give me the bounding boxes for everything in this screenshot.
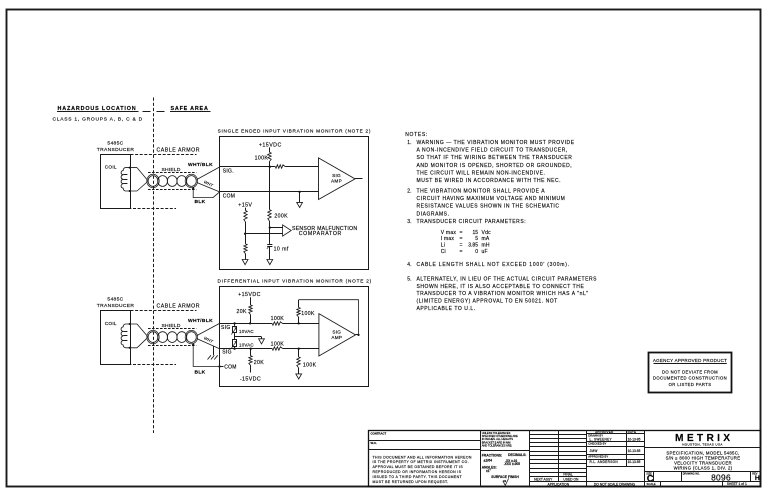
svg-text:AND MONITOR IS OPENED, SHORTED: AND MONITOR IS OPENED, SHORTED OR GROUND… <box>417 163 573 169</box>
wire ground stub <box>299 192 301 203</box>
svg-text:DRAWING NO.: DRAWING NO. <box>683 473 700 476</box>
wire between suppressors <box>234 333 236 340</box>
svg-text:FRACTIONS:: FRACTIONS: <box>482 454 502 458</box>
svg-text:100K: 100K <box>255 155 269 161</box>
single ended monitor box <box>220 137 369 270</box>
junction at shield end <box>192 343 194 345</box>
ground symbol at COM <box>297 202 303 207</box>
node comparator ref <box>244 233 246 235</box>
node feedback tap on SIG1 <box>298 322 300 324</box>
svg-text:NEXT ASSY: NEXT ASSY <box>534 478 553 482</box>
svg-text:mA: mA <box>482 236 490 242</box>
svg-text:BLK: BLK <box>195 199 206 205</box>
svg-text:200K: 200K <box>274 214 288 220</box>
svg-text:10VAC: 10VAC <box>239 329 254 334</box>
svg-text:MUST BE WIRED IN ACCORDANCE WI: MUST BE WIRED IN ACCORDANCE WITH THE NEC… <box>417 178 562 184</box>
wire COM input <box>220 191 319 193</box>
svg-text:DO NOT DEVIATE FROM: DO NOT DEVIATE FROM <box>662 369 718 374</box>
svg-text:0: 0 <box>475 249 478 255</box>
wire BLK to COM terminal <box>193 188 219 197</box>
resistor 20K pullup <box>249 305 252 315</box>
svg-text:A NON-INCENDIVE FIELD CIRCUIT: A NON-INCENDIVE FIELD CIRCUIT TO TRANSDU… <box>417 147 568 153</box>
wire SIG2 to op-amp <box>283 348 319 350</box>
svg-text:SIG: SIG <box>222 350 232 356</box>
svg-text:I max: I max <box>441 236 455 242</box>
svg-text:+15VDC: +15VDC <box>259 142 282 148</box>
wire SIG2 input line <box>220 348 273 350</box>
differential monitor box <box>220 287 369 387</box>
svg-text:3.: 3. <box>407 219 411 225</box>
coil L1 winding <box>121 324 137 348</box>
svg-text:R.L. ANDERSON: R.L. ANDERSON <box>590 460 619 464</box>
resistor 200K <box>268 210 271 221</box>
application rows grid <box>530 434 587 436</box>
svg-text:SIG.: SIG. <box>223 168 234 174</box>
node coil leads on box edge <box>129 323 131 325</box>
svg-text:APPLICATION: APPLICATION <box>548 482 570 486</box>
wire to SIG node <box>269 162 271 167</box>
svg-text:=: = <box>460 243 463 249</box>
svg-text:100K: 100K <box>301 311 315 317</box>
svg-text:THIS DOCUMENT AND ALL INFORMAT: THIS DOCUMENT AND ALL INFORMATION HEREON <box>373 455 472 459</box>
svg-text:SHOWN HERE, IT IS ALSO ACCEPTA: SHOWN HERE, IT IS ALSO ACCEPTABLE TO CON… <box>417 284 585 290</box>
resistor 100K feedback <box>298 300 300 308</box>
svg-text:WHT: WHT <box>203 179 214 188</box>
cable shield braid <box>148 332 158 343</box>
svg-text:BLK: BLK <box>195 369 206 375</box>
junction at shield end <box>192 187 194 189</box>
svg-text:HAZARDOUS LOCATION: HAZARDOUS LOCATION <box>58 106 137 112</box>
svg-text:5485C: 5485C <box>107 296 123 302</box>
svg-text:10-13-95: 10-13-95 <box>628 438 641 442</box>
wire 100K/200K branch crossing COM <box>269 167 271 210</box>
coil L1 winding <box>121 168 137 191</box>
surge suppressor 10VAC lower <box>233 340 237 347</box>
wire funnel from transducer to cable <box>137 168 148 181</box>
svg-text:5485C: 5485C <box>107 141 123 147</box>
svg-text:+15VDC: +15VDC <box>238 292 261 298</box>
svg-text:=: = <box>460 230 463 236</box>
svg-text:USED ON: USED ON <box>563 478 579 482</box>
svg-text:COM: COM <box>223 193 236 199</box>
node SIG junction <box>269 166 271 168</box>
svg-text:1.: 1. <box>407 140 411 146</box>
svg-text:HOUSTON, TEXAS USA: HOUSTON, TEXAS USA <box>682 442 723 446</box>
wire WHT/BLK to SIG terminal <box>197 323 220 335</box>
resistor +15V upper <box>244 211 247 223</box>
shield dashed outline <box>148 328 196 330</box>
resistor lower to ground <box>244 244 247 254</box>
wire +15VDC lead <box>269 147 271 152</box>
capacitor C1 10 mf <box>267 244 272 246</box>
wire BLK to COM terminal (diff) <box>193 345 219 367</box>
signature rows <box>587 441 645 443</box>
title block outline <box>369 431 761 487</box>
cable armor dashed outline top <box>131 154 197 156</box>
application grid divider <box>529 430 531 486</box>
svg-text:SO THAT IF THE WIRING BETWEEN: SO THAT IF THE WIRING BETWEEN THE TRANSD… <box>417 155 573 161</box>
svg-text:CIRCUIT HAVING MAXIMUM VOLTAGE: CIRCUIT HAVING MAXIMUM VOLTAGE AND MINIM… <box>417 196 566 202</box>
shield drain wire to open shield marks <box>213 346 215 355</box>
svg-text:ISSUED TO A THIRD PARTY. THIS: ISSUED TO A THIRD PARTY. THIS DOCUMENT <box>373 475 463 479</box>
wire COM stub <box>220 366 224 368</box>
agency approved product box <box>649 353 732 393</box>
svg-text:WIRING (CLASS 1, DIV. 2): WIRING (CLASS 1, DIV. 2) <box>674 465 733 470</box>
svg-text:10 mf: 10 mf <box>274 246 289 252</box>
node ground stub on COM <box>298 191 300 193</box>
svg-text:AGENCY APPROVED PRODUCT: AGENCY APPROVED PRODUCT <box>653 358 727 363</box>
svg-text:2.: 2. <box>407 188 411 194</box>
svg-text:AMP: AMP <box>331 335 342 340</box>
tolerance column divider <box>480 430 482 486</box>
svg-text:TRANSDUCER TO A VIBRATION MONI: TRANSDUCER TO A VIBRATION MONITOR WHICH … <box>417 291 589 297</box>
wire comparator lower input <box>245 233 283 235</box>
svg-text:SINGLE ENDED INPUT VIBRATION M: SINGLE ENDED INPUT VIBRATION MONITOR (NO… <box>218 128 372 133</box>
node SIG1 suppressor tap <box>233 322 235 324</box>
wire node to capacitor <box>269 228 271 244</box>
node coil leads on box edge <box>129 167 131 169</box>
svg-text:(LIMITED ENERGY) APPROVAL TO E: (LIMITED ENERGY) APPROVAL TO EN 50021. N… <box>417 299 558 305</box>
signature column divider <box>586 430 588 486</box>
svg-text:TRANSDUCER: TRANSDUCER <box>97 147 135 153</box>
wire suppressor midpoint to ground arrow <box>235 336 262 338</box>
svg-text:CABLE ARMOR: CABLE ARMOR <box>157 304 201 310</box>
cable armor dashed outline bottom <box>101 208 176 210</box>
svg-text:Ci: Ci <box>441 249 446 255</box>
svg-text:=: = <box>460 249 463 255</box>
transducer body box <box>101 155 131 209</box>
svg-text:100K: 100K <box>271 342 285 348</box>
wire to comparator ref node <box>245 222 247 234</box>
svg-text:5: 5 <box>475 236 478 242</box>
svg-text:mH: mH <box>482 243 490 249</box>
svg-text:4.: 4. <box>407 262 411 268</box>
wire 20K to SIG1 <box>250 315 252 324</box>
node 20K/SIG1 <box>249 322 251 324</box>
wire SIG1 to op-amp <box>283 323 319 325</box>
resistor 100K pullup <box>268 152 271 161</box>
wire 200K to node <box>269 221 271 228</box>
open shield hash marks <box>208 355 211 359</box>
svg-text:DECIMALS:: DECIMALS: <box>508 453 526 457</box>
hazardous/safe boundary dashed line <box>153 98 155 434</box>
wire capacitor to ground <box>269 247 271 260</box>
svg-text:±1°: ±1° <box>486 469 492 473</box>
resistor 20K pulldown <box>250 349 252 356</box>
title block job cell <box>368 449 480 451</box>
resistor 100K series SIG2 <box>272 347 282 350</box>
svg-text:DIFFERENTIAL INPUT VIBRATION M: DIFFERENTIAL INPUT VIBRATION MONITOR (NO… <box>218 279 372 284</box>
svg-text:AMP: AMP <box>331 178 342 183</box>
svg-text:COMPARATOR: COMPARATOR <box>299 231 342 237</box>
resistor 100K series SIG1 <box>272 322 282 325</box>
wire +15V lead <box>245 208 247 211</box>
svg-text:ALTERNATELY, IN LIEU OF THE AC: ALTERNATELY, IN LIEU OF THE ACTUAL CIRCU… <box>417 277 598 283</box>
comparator U2 triangle <box>283 225 292 236</box>
svg-text:COIL: COIL <box>105 321 117 326</box>
boundary tick marks <box>143 111 151 113</box>
svg-text:W.O.: W.O. <box>371 441 377 445</box>
svg-text:100K: 100K <box>271 316 285 322</box>
svg-text:REPRODUCED OR INFORMATION HERE: REPRODUCED OR INFORMATION HEREON IS <box>373 470 462 474</box>
svg-text:JMW: JMW <box>590 449 598 453</box>
svg-text:SURFACE FINISH: SURFACE FINISH <box>491 475 519 479</box>
ground symbol suppressor midpoint <box>259 339 265 344</box>
svg-text:RESISTANCE VALUES SHOWN IN THE: RESISTANCE VALUES SHOWN IN THE SCHEMATIC <box>417 204 560 210</box>
svg-text:APPROVED BY: APPROVED BY <box>588 454 608 458</box>
svg-text:CABLE ARMOR: CABLE ARMOR <box>157 148 201 154</box>
wire comparator upper input <box>270 227 283 229</box>
svg-text:DO NOT SCALE DRAWING: DO NOT SCALE DRAWING <box>594 482 636 486</box>
svg-text:APPLICABLE TO U.L.: APPLICABLE TO U.L. <box>417 306 476 312</box>
wire SIG input <box>220 166 276 168</box>
svg-text:CABLE LENGTH SHALL NOT EXCEED: CABLE LENGTH SHALL NOT EXCEED 1000' (300… <box>417 262 570 268</box>
node feedback/output <box>357 334 359 336</box>
svg-text:WHT: WHT <box>203 335 214 344</box>
svg-text:WHT/BLK: WHT/BLK <box>188 318 213 324</box>
surface finish symbol <box>503 478 509 485</box>
op-amp U1 SIG AMP <box>319 158 356 200</box>
wire feedback loop <box>299 300 359 335</box>
svg-text:CONTRACT: CONTRACT <box>371 431 387 435</box>
coil loop return ticks <box>123 331 127 333</box>
metrix column divider <box>644 430 646 486</box>
svg-text:uF: uF <box>482 249 488 255</box>
svg-text:COIL: COIL <box>105 165 117 170</box>
transducer body box <box>101 311 131 365</box>
wire funnel from transducer to cable <box>137 324 148 337</box>
cable shield braid <box>148 176 158 187</box>
wire to -15VDC <box>250 365 252 372</box>
svg-text:5.: 5. <box>407 277 411 283</box>
svg-text:100K: 100K <box>303 362 317 368</box>
svg-text:MUST BE RETURNED UPON REQUEST.: MUST BE RETURNED UPON REQUEST. <box>373 480 449 484</box>
svg-text:THE VIBRATION MONITOR SHALL PR: THE VIBRATION MONITOR SHALL PROVIDE A <box>417 188 546 194</box>
svg-text:TRANSDUCER CIRCUIT PARAMETERS:: TRANSDUCER CIRCUIT PARAMETERS: <box>417 219 527 225</box>
svg-text:NOTES:: NOTES: <box>405 132 428 138</box>
surge suppressor 10VAC upper <box>234 323 236 326</box>
svg-text:20K: 20K <box>237 309 247 315</box>
wire SIG1 input line <box>220 323 273 325</box>
svg-text:TRANSDUCER: TRANSDUCER <box>97 303 135 309</box>
wire op-amp output stub <box>355 178 363 180</box>
resistor series on SIG line <box>275 165 285 168</box>
tolerance cell divider <box>480 450 530 452</box>
node SIG2 suppressor tap <box>233 348 235 350</box>
wire SIG to op-amp <box>285 166 318 168</box>
svg-text:±1/64: ±1/64 <box>484 459 493 463</box>
svg-text:20K: 20K <box>254 360 264 366</box>
title block contract cell <box>368 440 480 442</box>
svg-text:SHIELD: SHIELD <box>162 167 181 173</box>
svg-text:.XXX ±.005: .XXX ±.005 <box>504 462 520 466</box>
wire +15VDC lead (diff) <box>250 297 252 305</box>
wire WHT to lower terminal <box>197 339 220 349</box>
svg-text:SHEET 1 of 1: SHEET 1 of 1 <box>727 482 747 486</box>
svg-text:-15VDC: -15VDC <box>240 376 261 382</box>
ground symbol +15V divider <box>242 260 248 265</box>
svg-text:APPROVAL MUST BE OBTAINED BEFO: APPROVAL MUST BE OBTAINED BEFORE IT IS <box>373 465 464 469</box>
svg-text:IS THE PROPERTY OF METRIX INST: IS THE PROPERTY OF METRIX INSTRUMENT CO. <box>373 460 469 464</box>
svg-text:10-13-95: 10-13-95 <box>628 449 641 453</box>
svg-text:FINAL: FINAL <box>563 472 573 476</box>
svg-text:=: = <box>460 236 463 242</box>
ground symbol capacitor <box>267 260 273 265</box>
svg-text:V max: V max <box>441 230 457 236</box>
ground symbol SIG2 divider <box>296 374 302 379</box>
wire WHT to lower terminal <box>197 183 220 192</box>
resistor 100K to ground from SIG2 <box>298 349 300 357</box>
svg-text:AND TOLERANCES ARE:: AND TOLERANCES ARE: <box>482 443 513 447</box>
node comparator upper input <box>269 226 271 228</box>
cable armor dashed outline top <box>131 310 197 312</box>
svg-text:SIG: SIG <box>221 325 231 331</box>
shield dashed outline <box>148 172 196 174</box>
svg-text:DIAGRAMS.: DIAGRAMS. <box>417 211 450 217</box>
svg-text:Vdc: Vdc <box>482 230 492 236</box>
svg-text:WHT/BLK: WHT/BLK <box>188 162 213 168</box>
svg-text:63: 63 <box>503 479 506 483</box>
wire WHT/BLK to SIG terminal <box>197 167 220 180</box>
coil loop return ticks <box>123 174 127 176</box>
label APPLICATION <box>530 481 645 483</box>
svg-text:15: 15 <box>472 230 478 236</box>
cable armor dashed outline bottom <box>101 364 176 366</box>
op-amp U3 SIG AMP (diff) <box>319 314 356 356</box>
svg-text:+15V: +15V <box>238 202 252 208</box>
svg-text:COM: COM <box>224 364 237 370</box>
svg-text:10VAC: 10VAC <box>239 343 254 348</box>
wire suppressor to SIG2 <box>234 347 236 349</box>
node 20K pulldown tap <box>250 348 252 350</box>
svg-text:SAFE AREA: SAFE AREA <box>171 106 209 112</box>
wire op-amp output stub (diff) <box>356 334 359 336</box>
svg-text:WARNING — THE VIBRATION MONITO: WARNING — THE VIBRATION MONITOR MUST PRO… <box>417 140 575 146</box>
svg-text:DOCUMENTED CONSTRUCTION: DOCUMENTED CONSTRUCTION <box>653 376 727 381</box>
svg-text:10-13-95: 10-13-95 <box>628 460 641 464</box>
node SIG2/100K divider <box>298 348 300 350</box>
svg-text:OR LISTED PARTS: OR LISTED PARTS <box>669 382 712 387</box>
svg-text:3.85: 3.85 <box>468 243 478 249</box>
svg-text:8096: 8096 <box>711 472 731 482</box>
svg-text:SCALE: SCALE <box>647 482 656 486</box>
svg-text:THE CIRCUIT WILL REMAIN NON-IN: THE CIRCUIT WILL REMAIN NON-INCENDIVE. <box>417 170 546 176</box>
svg-text:Li: Li <box>441 243 445 249</box>
svg-text:CLASS 1, GROUPS A, B, C & D: CLASS 1, GROUPS A, B, C & D <box>53 117 143 123</box>
svg-text:CHECKED BY: CHECKED BY <box>588 441 606 445</box>
